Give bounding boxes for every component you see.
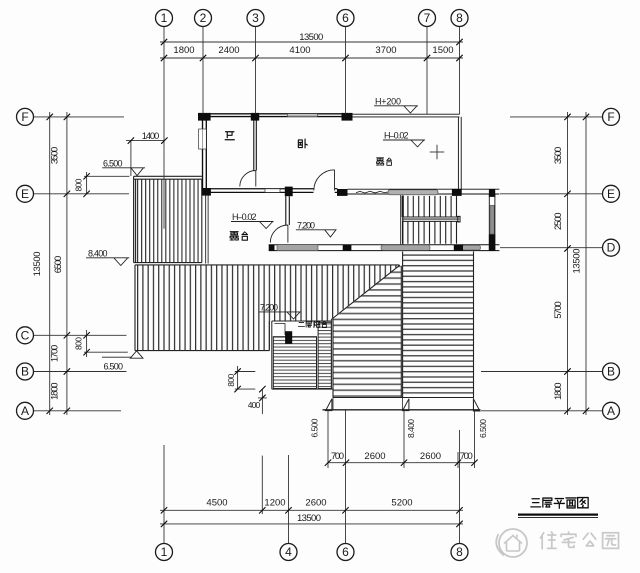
svg-text:6.500: 6.500 <box>309 418 319 437</box>
svg-text:2600: 2600 <box>364 451 385 462</box>
svg-text:7.200: 7.200 <box>260 302 278 312</box>
svg-text:2: 2 <box>200 11 207 25</box>
svg-text:7.200: 7.200 <box>297 220 315 230</box>
svg-text:2500: 2500 <box>553 212 564 230</box>
svg-text:3500: 3500 <box>553 147 564 165</box>
svg-text:3500: 3500 <box>50 147 61 165</box>
svg-text:6: 6 <box>342 11 349 25</box>
svg-text:5700: 5700 <box>553 301 564 319</box>
svg-text:6500: 6500 <box>53 256 64 274</box>
svg-text:1: 1 <box>161 545 168 559</box>
svg-text:13500: 13500 <box>297 513 321 524</box>
svg-text:C: C <box>21 328 30 342</box>
svg-text:H–0.02: H–0.02 <box>384 131 409 141</box>
svg-text:F: F <box>607 110 614 124</box>
svg-text:6.500: 6.500 <box>478 419 488 438</box>
svg-text:800: 800 <box>74 337 84 350</box>
svg-text:4100: 4100 <box>289 45 310 56</box>
svg-text:1700: 1700 <box>50 345 61 363</box>
svg-text:B: B <box>21 365 29 379</box>
svg-text:1500: 1500 <box>432 45 453 56</box>
svg-text:5200: 5200 <box>391 498 412 509</box>
svg-text:6.500: 6.500 <box>103 158 123 168</box>
svg-text:13500: 13500 <box>299 32 323 43</box>
svg-text:7: 7 <box>424 11 431 25</box>
svg-text:E: E <box>21 187 29 201</box>
svg-text:A: A <box>607 404 615 418</box>
svg-text:700: 700 <box>460 451 473 462</box>
svg-text:6: 6 <box>342 545 349 559</box>
svg-text:2600: 2600 <box>305 498 326 509</box>
svg-text:A: A <box>21 404 29 418</box>
svg-text:800: 800 <box>226 374 236 387</box>
svg-text:4: 4 <box>285 545 292 559</box>
svg-text:B: B <box>607 365 615 379</box>
svg-text:13500: 13500 <box>32 251 43 276</box>
svg-text:E: E <box>607 187 615 201</box>
svg-text:8.400: 8.400 <box>88 248 108 258</box>
svg-text:4500: 4500 <box>206 498 227 509</box>
svg-text:3: 3 <box>252 11 259 25</box>
svg-text:1800: 1800 <box>553 382 564 400</box>
svg-text:8: 8 <box>456 11 463 25</box>
svg-text:H+200: H+200 <box>375 96 401 106</box>
svg-text:F: F <box>21 110 28 124</box>
svg-text:2400: 2400 <box>218 45 239 56</box>
svg-text:6.500: 6.500 <box>104 362 124 372</box>
svg-text:D: D <box>607 241 616 255</box>
svg-text:1200: 1200 <box>264 498 285 509</box>
svg-text:8.400: 8.400 <box>406 419 416 438</box>
svg-text:1800: 1800 <box>173 45 194 56</box>
svg-text:700: 700 <box>331 451 344 462</box>
svg-text:H–0.02: H–0.02 <box>232 212 257 222</box>
svg-text:1400: 1400 <box>142 131 160 142</box>
svg-text:8: 8 <box>456 545 463 559</box>
svg-text:400: 400 <box>248 400 261 410</box>
svg-text:13500: 13500 <box>572 249 583 274</box>
svg-text:800: 800 <box>74 178 84 191</box>
svg-text:2600: 2600 <box>420 451 441 462</box>
svg-text:1800: 1800 <box>50 382 61 400</box>
svg-text:3700: 3700 <box>375 45 396 56</box>
svg-text:1: 1 <box>161 11 168 25</box>
